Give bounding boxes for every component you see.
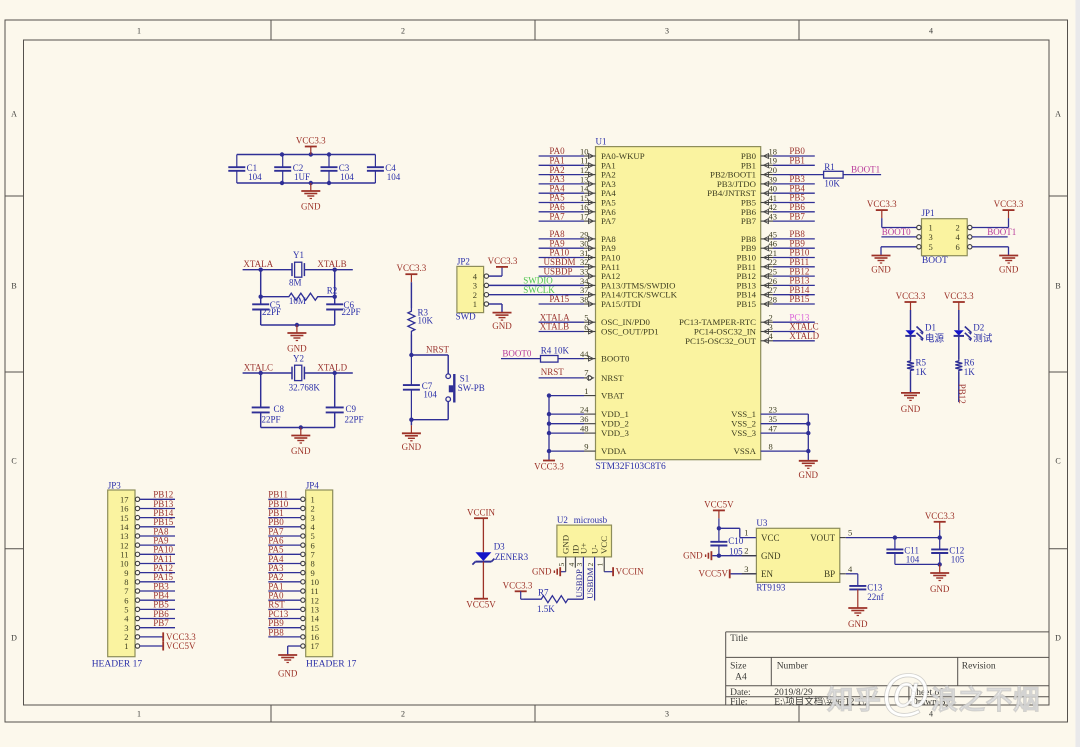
svg-text:3: 3	[744, 564, 748, 574]
U1 pin 22 PB11	[737, 257, 815, 272]
resistor R2	[261, 286, 338, 306]
resistor R5	[907, 358, 927, 377]
svg-text:VCC3.3: VCC3.3	[488, 256, 518, 266]
wire JP4 pin 11 (PA1)	[268, 590, 300, 592]
U1 pin 46 PB9	[741, 238, 815, 253]
svg-text:VCC3.3: VCC3.3	[296, 136, 326, 146]
svg-text:RT9193: RT9193	[756, 582, 785, 592]
svg-text:SW-PB: SW-PB	[458, 383, 485, 393]
svg-text:D: D	[1055, 634, 1061, 643]
wire U2 ID pin	[574, 557, 576, 568]
ground (D1)	[901, 393, 921, 414]
ground (JP1 left)	[871, 256, 891, 275]
JP3 pin 5	[124, 605, 139, 615]
svg-text:PB15: PB15	[789, 294, 810, 304]
svg-text:VCC5V: VCC5V	[698, 569, 728, 579]
watermark zhihu	[827, 664, 1040, 720]
svg-text:44: 44	[580, 349, 589, 359]
svg-text:17: 17	[580, 212, 589, 222]
JP3 pin 16	[120, 504, 140, 514]
svg-text:A: A	[11, 110, 17, 119]
svg-text:5: 5	[557, 563, 566, 567]
U1 pin 38 PA15/JTDI	[539, 294, 641, 309]
svg-text:GND: GND	[291, 446, 311, 456]
svg-text:104: 104	[248, 172, 262, 182]
svg-text:HEADER 17: HEADER 17	[92, 660, 143, 670]
svg-text:VCC5V: VCC5V	[704, 499, 734, 509]
svg-text:1: 1	[596, 563, 605, 567]
capacitor C13	[849, 583, 883, 603]
crystal Y1	[289, 250, 304, 288]
svg-text:VCC3.3: VCC3.3	[944, 291, 974, 301]
svg-text:BP: BP	[824, 569, 835, 579]
svg-text:1: 1	[137, 710, 141, 719]
svg-text:NRST: NRST	[541, 367, 565, 377]
U1 pin 36 VDD_2	[547, 414, 629, 429]
svg-text:BOOT0: BOOT0	[882, 227, 911, 237]
wire JP3 pin 15 (PB14)	[140, 517, 175, 519]
U1 pin 42 PB6	[741, 202, 815, 217]
wire VCC5V to U3 VCC	[717, 518, 757, 541]
svg-text:VSS_1: VSS_1	[731, 409, 756, 419]
svg-text:VDDA: VDDA	[601, 446, 627, 456]
resistor R6	[955, 358, 975, 377]
svg-text:A: A	[1055, 110, 1061, 119]
svg-text:NRST: NRST	[601, 373, 624, 383]
wire R3 to NRST node	[409, 335, 448, 374]
svg-text:R1: R1	[824, 162, 835, 172]
wire JP3 pin 6 (PB4)	[140, 599, 175, 601]
wire JP2 pin1 to ground	[489, 304, 502, 313]
svg-text:32.768K: 32.768K	[289, 382, 321, 392]
wire U2 VCC pin to VCCIN	[604, 557, 612, 572]
power VCC3.3 (JP1 right)	[994, 199, 1024, 218]
wire JP1 pin5 to ground	[881, 247, 917, 256]
svg-text:STM32F103C8T6: STM32F103C8T6	[596, 462, 666, 472]
U1 pin 48 VDD_3	[547, 424, 630, 439]
svg-text:105: 105	[951, 554, 965, 564]
wire JP3 pin 11 (PA10)	[140, 553, 175, 555]
wire JP4 pin 5 (PA7)	[268, 535, 300, 537]
svg-text:C10: C10	[728, 536, 744, 546]
wire ground to U3 GND	[712, 554, 756, 558]
power VCC5V (U3)	[704, 499, 734, 518]
svg-text:File:: File:	[730, 697, 747, 707]
svg-text:R2: R2	[327, 286, 338, 296]
svg-text:XTALA: XTALA	[243, 259, 273, 269]
power VCC3.3 (cap bank)	[296, 136, 326, 155]
svg-text:105: 105	[729, 547, 743, 557]
JP3 pin 14	[120, 522, 140, 532]
svg-text:XTALC: XTALC	[244, 363, 273, 373]
wire JP4 pin 17 to ground	[288, 646, 301, 655]
LED D2	[954, 322, 993, 344]
svg-text:BOOT: BOOT	[922, 256, 948, 266]
svg-text:PB12: PB12	[957, 384, 967, 404]
svg-text:VBAT: VBAT	[601, 391, 625, 401]
svg-text:GND: GND	[999, 264, 1019, 274]
JP3 pin 4	[124, 614, 139, 624]
svg-text:VOUT: VOUT	[810, 533, 835, 543]
wire USBDM (U2)	[594, 557, 596, 601]
svg-text:VCC5V: VCC5V	[166, 641, 196, 651]
svg-text:GND: GND	[287, 344, 307, 354]
power VCC5V (D3)	[466, 599, 496, 610]
U1 pin 1 VBAT	[547, 386, 625, 401]
wire JP4 pin 12 (PA0)	[268, 599, 300, 601]
svg-text:2: 2	[401, 710, 405, 719]
svg-text:23: 23	[769, 405, 778, 415]
svg-text:U1: U1	[596, 136, 607, 146]
wire JP3 pin 9 (PA12)	[140, 572, 175, 574]
JP3 pin 3	[124, 623, 139, 633]
svg-text:VDD_1: VDD_1	[601, 409, 629, 419]
wire PB2 to R1	[773, 174, 824, 176]
U1 pin 25 PB12	[736, 266, 814, 281]
svg-text:测试: 测试	[973, 332, 993, 344]
wire JP3 pin 7 (PB3)	[140, 590, 175, 592]
wire JP4 pin 13 (RST)	[268, 608, 300, 610]
JP3 pin 2	[124, 632, 139, 642]
svg-text:USBDP: USBDP	[544, 266, 573, 276]
U1 pin 29 PA8	[539, 229, 617, 244]
svg-text:PA7: PA7	[601, 216, 616, 226]
U1 pin 32 PA11	[539, 257, 620, 272]
JP4 pin 8	[301, 559, 315, 569]
svg-text:A4: A4	[735, 672, 747, 682]
U1 pin 18 PB0	[741, 146, 815, 161]
JP4 pin 9	[301, 568, 315, 578]
U1 pin 24 VDD_1	[547, 405, 629, 420]
power VCC3.3 (R3)	[397, 263, 427, 282]
U1 pin 4 PC15-OSC32_OUT	[685, 331, 820, 346]
JP3 pin 11	[120, 550, 139, 560]
svg-text:1.5K: 1.5K	[537, 604, 555, 614]
node BOOT1 (JP1)	[972, 227, 1016, 237]
JP4 pin 12	[301, 595, 319, 605]
svg-text:ZENER3: ZENER3	[495, 552, 529, 562]
U1 pin 39 PB3/JTDO	[717, 174, 815, 189]
svg-text:USBDM: USBDM	[585, 567, 595, 598]
svg-text:2: 2	[744, 546, 748, 556]
U1 pin 27 PB14	[736, 285, 814, 300]
svg-text:C9: C9	[346, 404, 357, 414]
svg-text:1: 1	[473, 299, 477, 309]
svg-text:B: B	[1055, 282, 1060, 291]
svg-text:JP4: JP4	[306, 480, 320, 490]
svg-text:JP2: JP2	[457, 256, 470, 266]
svg-text:S1: S1	[460, 373, 470, 383]
svg-text:XTALB: XTALB	[317, 259, 346, 269]
svg-text:104: 104	[387, 172, 401, 182]
svg-text:5: 5	[848, 528, 852, 538]
svg-text:Date:: Date:	[730, 688, 751, 698]
svg-text:VSS_3: VSS_3	[731, 428, 757, 438]
capacitor C3	[321, 155, 355, 184]
wire BP to C13	[846, 574, 858, 586]
svg-text:22PF: 22PF	[262, 414, 281, 424]
ground (JP1 right)	[999, 256, 1019, 275]
svg-text:VCCIN: VCCIN	[616, 567, 645, 577]
header JP2	[456, 256, 489, 321]
wire JP3 pin 4 (PB6)	[140, 618, 175, 620]
svg-text:BOOT1: BOOT1	[851, 164, 880, 174]
svg-text:R7: R7	[538, 587, 549, 597]
U1 pin 31 PA10	[539, 248, 621, 263]
svg-text:1UF: 1UF	[294, 172, 310, 182]
power VCC3.3 (JP3)	[163, 632, 196, 642]
svg-text:XTALD: XTALD	[317, 363, 347, 373]
svg-text:microusb: microusb	[574, 515, 608, 525]
svg-text:47: 47	[769, 424, 778, 434]
svg-text:GND: GND	[532, 567, 552, 577]
svg-text:EN: EN	[761, 569, 773, 579]
svg-text:GND: GND	[930, 584, 950, 594]
JP3 pin 1	[124, 641, 139, 651]
U1 pin 44 BOOT0	[558, 349, 630, 364]
JP3 pin 17	[120, 495, 140, 505]
JP3 pin 9	[124, 568, 139, 578]
U1 pin 6 OSC_OUT/PD1	[539, 322, 659, 337]
svg-text:VDD_3: VDD_3	[601, 428, 629, 438]
svg-text:Title: Title	[730, 634, 748, 644]
svg-text:2: 2	[586, 563, 595, 567]
resistor R3	[408, 307, 434, 334]
svg-text:28: 28	[769, 294, 778, 304]
capacitor C8	[252, 404, 285, 424]
capacitor C7	[403, 355, 438, 420]
wire JP1 pin6 to ground	[972, 247, 1009, 256]
svg-text:VCC3.3: VCC3.3	[896, 291, 926, 301]
svg-text:10M: 10M	[289, 296, 306, 306]
wire VCC3.3 to D1	[910, 310, 912, 330]
JP4 pin 15	[301, 623, 319, 633]
wire JP1 pin2 to VCC3.3	[972, 218, 1009, 227]
svg-text:Revision: Revision	[962, 662, 996, 672]
wire JP3 pin 8 (PA15)	[140, 581, 175, 583]
power VCC5V (JP3)	[163, 641, 196, 651]
svg-text:2019/8/29: 2019/8/29	[774, 688, 813, 698]
capacitor C11	[886, 538, 919, 565]
capacitor C4	[367, 155, 401, 184]
wire XTALA-XTALB	[243, 268, 353, 328]
svg-text:17: 17	[311, 641, 320, 651]
wire JP4 pin 10 (PA2)	[268, 581, 300, 583]
wire C11-C12 bottom	[895, 562, 942, 566]
node BOOT1 (R1)	[843, 164, 881, 174]
svg-text:C: C	[1055, 457, 1060, 466]
svg-text:8: 8	[769, 442, 773, 452]
wire U2 GND pin	[561, 557, 566, 572]
svg-text:D3: D3	[494, 542, 505, 552]
ground (Y1)	[287, 325, 307, 354]
header JP3	[92, 480, 143, 669]
wire USBDP (U2)	[582, 557, 584, 599]
JP3 pin 8	[124, 577, 139, 587]
svg-text:GND: GND	[848, 619, 868, 629]
node BOOT0 (JP1)	[881, 227, 916, 237]
wire S1 to ground	[409, 402, 448, 426]
wire JP4 pin 15 (PB9)	[268, 627, 300, 629]
JP3 pin 10	[120, 559, 140, 569]
U1 pin 15 PA5	[539, 193, 617, 208]
wire JP1 pin1 to VCC3.3	[882, 218, 917, 227]
svg-text:XTALD: XTALD	[789, 331, 819, 341]
power VCC3.3 (R7)	[503, 581, 533, 592]
svg-text:6: 6	[956, 242, 960, 252]
svg-text:6: 6	[584, 322, 588, 332]
wire JP4 pin 2 (PB10)	[268, 507, 300, 509]
JP4 pin 14	[301, 614, 320, 624]
ground (JP4)	[278, 655, 298, 679]
svg-text:SWD: SWD	[456, 312, 477, 322]
U1 pin 43 PB7	[741, 211, 815, 226]
wire JP4 pin 9 (PA3)	[268, 572, 300, 574]
svg-text:1K: 1K	[964, 367, 976, 377]
svg-text:10K: 10K	[824, 178, 840, 188]
capacitor C1	[228, 155, 262, 184]
U1 pin 33 PA12	[539, 266, 621, 281]
U1 pin 5 OSC_IN/PD0	[539, 312, 651, 327]
ground (JP2)	[492, 313, 512, 331]
U1 pin 45 PB8	[741, 229, 815, 244]
JP3 pin 7	[124, 586, 139, 596]
svg-text:3: 3	[665, 710, 669, 719]
wire JP3 pin 17 (PB12)	[140, 498, 175, 500]
wire SWCLK	[489, 294, 584, 296]
svg-text:BOOT1: BOOT1	[987, 227, 1016, 237]
svg-text:电源: 电源	[925, 332, 945, 344]
svg-text:JP1: JP1	[922, 208, 935, 218]
svg-text:BOOT0: BOOT0	[502, 348, 531, 358]
svg-text:1: 1	[584, 386, 588, 396]
svg-text:OSC_OUT/PD1: OSC_OUT/PD1	[601, 327, 659, 337]
svg-text:U+: U+	[578, 543, 588, 554]
title block	[726, 632, 1049, 708]
svg-text:3: 3	[665, 27, 669, 36]
U1 pin 17 PA7	[539, 211, 617, 226]
svg-text:D: D	[11, 634, 17, 643]
wire R6 to PB12	[958, 372, 960, 402]
svg-text:22nf: 22nf	[867, 592, 884, 602]
svg-text:1K: 1K	[916, 367, 928, 377]
svg-text:3: 3	[929, 232, 933, 242]
ground (C13)	[848, 589, 868, 629]
U1 pin 2 PC13-TAMPER-RTC	[679, 312, 815, 327]
wire JP4 pin 4 (PB0)	[268, 526, 300, 528]
ground (Y2)	[291, 428, 311, 457]
svg-text:Y2: Y2	[293, 354, 304, 364]
connector U2 microusb	[557, 515, 612, 566]
svg-text:PB7: PB7	[153, 618, 169, 628]
svg-text:U3: U3	[756, 518, 767, 528]
svg-text:38: 38	[580, 294, 589, 304]
U1 pin 16 PA6	[539, 202, 617, 217]
wire JP4 pin 6 (PA6)	[268, 544, 300, 546]
capacitor C9	[326, 404, 364, 424]
wire JP3 pin 3 (PB7)	[140, 627, 175, 629]
U1 pin 26 PB13	[736, 276, 814, 291]
svg-text:GND: GND	[402, 442, 422, 452]
wire cap-bank top bus	[237, 152, 376, 185]
svg-text:VCC: VCC	[599, 536, 609, 554]
wire VCC5V bar to EN	[731, 573, 757, 575]
wire XTALC-XTALD	[243, 371, 353, 430]
svg-text:PB8: PB8	[268, 627, 284, 637]
svg-text:Y1: Y1	[293, 250, 304, 260]
svg-text:VCC3.3: VCC3.3	[534, 462, 564, 472]
ground (U2, sideways)	[532, 567, 560, 577]
power VCC3.3 (JP1 left)	[867, 199, 897, 218]
U1 pin 28 PB15	[736, 294, 814, 309]
node BOOT0 (U1)	[501, 348, 541, 358]
U1 pin 11 PA1	[539, 156, 616, 171]
wire VCCIN to D3	[482, 518, 484, 552]
power VCC5V (U3 EN)	[698, 569, 729, 579]
wire SWDIO	[489, 284, 584, 286]
power VCCIN (D3)	[467, 507, 496, 518]
wire JP2 pin4 to VCC3.3	[489, 267, 502, 276]
wire VCC3.3 to R3	[410, 282, 412, 308]
svg-text:C13: C13	[867, 583, 883, 593]
svg-text:43: 43	[769, 212, 778, 222]
JP4 pin 6	[301, 540, 315, 550]
wire VCC3.3 to D2	[958, 310, 960, 330]
wire JP4 pin 3 (PB1)	[268, 517, 300, 519]
svg-text:8M: 8M	[289, 277, 302, 287]
ground (U3 GND pin, sideways)	[683, 551, 711, 561]
svg-text:R4 10K: R4 10K	[541, 345, 570, 355]
wire JP3 pin 1 to VCC5V	[140, 645, 163, 647]
capacitor C6	[326, 300, 360, 317]
U1 pin 34 PA13/JTMS/SWDIO	[580, 276, 675, 291]
JP3 pin 12	[120, 540, 140, 550]
diode D3 ZENER3	[472, 542, 528, 565]
wire D3 to VCC5V	[482, 562, 484, 599]
JP4 pin 17	[301, 641, 319, 651]
U1 pin 40 PB4/JNTRST	[707, 183, 815, 198]
wire JP3 pin 5 (PB5)	[140, 608, 175, 610]
JP4 pin 4	[301, 522, 316, 532]
svg-text:GND: GND	[683, 551, 703, 561]
JP4 pin 13	[301, 605, 319, 615]
JP4 pin 10	[301, 577, 319, 587]
wire JP3 pin 16 (PB13)	[140, 507, 175, 509]
wire JP3 pin 2 to VCC3.3	[140, 636, 163, 638]
switch S1	[446, 373, 485, 402]
JP3 pin 15	[120, 513, 140, 523]
capacitor C2	[274, 155, 310, 184]
power VCC3.3 (U1 VDD)	[534, 461, 564, 472]
wire JP3 pin 10 (PA11)	[140, 562, 175, 564]
power VCC3.3 (D1)	[896, 291, 926, 310]
svg-text:USBDP: USBDP	[574, 569, 584, 597]
power VCC3.3 (U3 out)	[925, 511, 955, 538]
U1 pin 13 PA3	[539, 174, 617, 189]
wire JP3 pin 13 (PA8)	[140, 535, 175, 537]
svg-text:2: 2	[401, 27, 405, 36]
power VCC3.3 (D2)	[944, 291, 974, 310]
svg-text:22PF: 22PF	[342, 307, 361, 317]
JP3 pin 6	[124, 595, 139, 605]
svg-text:HEADER 17: HEADER 17	[306, 660, 357, 670]
svg-text:9: 9	[584, 442, 588, 452]
regulator U3 RT9193	[742, 518, 853, 592]
JP4 pin 5	[301, 531, 315, 541]
U1 pin 20 PB2/BOOT1	[710, 165, 777, 180]
svg-text:GND: GND	[871, 264, 891, 274]
U1 pin 47 VSS_3	[731, 424, 808, 439]
